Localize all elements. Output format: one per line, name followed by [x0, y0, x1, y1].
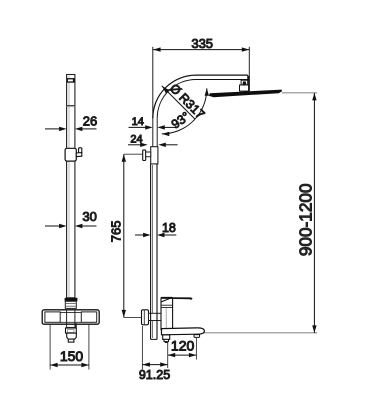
head mount base	[240, 85, 249, 91]
lever handle	[161, 297, 193, 300]
spout nub	[194, 335, 200, 338]
hand shower rail	[67, 75, 75, 298]
lower bracket arm	[149, 313, 162, 320]
rail through body	[66, 310, 68, 328]
arm end drop line	[248, 76, 250, 91]
spout	[162, 328, 205, 335]
dimension 120 line	[168, 354, 197, 356]
mixer body right cap	[81, 312, 96, 322]
dimension 26 left arrow	[45, 128, 97, 130]
svg-text:26: 26	[83, 113, 97, 128]
upper bracket flange	[143, 150, 146, 161]
93 deg arc	[162, 88, 207, 134]
dimension 30 arrows	[45, 225, 97, 227]
svg-text:18: 18	[162, 221, 176, 235]
handset dark band	[67, 78, 75, 83]
extension line right	[248, 47, 250, 92]
dimension 91.25 extension line	[141, 326, 143, 369]
dimension 120 extension lines	[167, 342, 169, 369]
column over arm	[150, 313, 152, 321]
dimension 335 line	[153, 49, 249, 51]
svg-text:91.25: 91.25	[139, 368, 170, 382]
spout tip	[68, 339, 74, 342]
extension line left / tube left edge	[152, 47, 154, 147]
spout nut	[66, 328, 77, 333]
lever base diagonal	[161, 299, 169, 302]
mixer body left cap	[45, 312, 60, 322]
svg-text:30: 30	[82, 209, 96, 224]
900-1200 top extension	[282, 92, 317, 94]
svg-text:900-1200: 900-1200	[296, 183, 316, 256]
dimension 150 line	[50, 364, 89, 366]
dimension 900-1200 line	[313, 93, 315, 333]
svg-text:150: 150	[60, 348, 84, 364]
rail adapter dark ring	[65, 298, 78, 302]
slider knob stem	[76, 153, 82, 157]
curved arm outer	[153, 75, 248, 118]
upper bracket arm	[146, 152, 151, 157]
svg-text:14: 14	[132, 116, 144, 128]
shower head slab	[209, 90, 282, 98]
handset divider	[67, 105, 75, 107]
dimension 150 extension lines	[49, 325, 51, 370]
dimension 91.25 line	[142, 364, 167, 366]
mixer body front	[161, 297, 173, 330]
slider knob top	[79, 148, 82, 153]
R317 leader	[162, 86, 195, 119]
mixer body (side) outer	[42, 310, 99, 324]
lower wall flange	[142, 310, 149, 325]
spout cup	[67, 333, 77, 339]
extension to 765 bottom	[124, 316, 142, 318]
curved arm inner	[157, 80, 248, 119]
extension to 765 top	[124, 153, 143, 155]
svg-text:24: 24	[130, 134, 142, 146]
svg-text:120: 120	[171, 337, 195, 353]
rail inner highlight	[68, 76, 70, 297]
svg-text:335: 335	[191, 36, 213, 51]
R317 arrowhead	[162, 86, 169, 93]
svg-text:765: 765	[108, 221, 123, 243]
rail adapter block	[65, 301, 76, 308]
upper wall bracket body	[151, 147, 158, 164]
dimension 14	[129, 126, 147, 128]
mixer body mid lines	[60, 312, 81, 314]
head mount neck	[241, 80, 248, 85]
dimension 18	[135, 234, 144, 236]
arm end	[247, 75, 249, 81]
dimension 765 line	[123, 154, 125, 317]
lower column	[150, 164, 152, 340]
dimension 24	[128, 144, 142, 146]
handset band slot	[68, 79, 73, 81]
slider bracket	[65, 148, 76, 161]
tube right edge	[156, 118, 158, 146]
900-1200 bottom extension	[204, 332, 317, 334]
under-body stub	[163, 335, 170, 340]
